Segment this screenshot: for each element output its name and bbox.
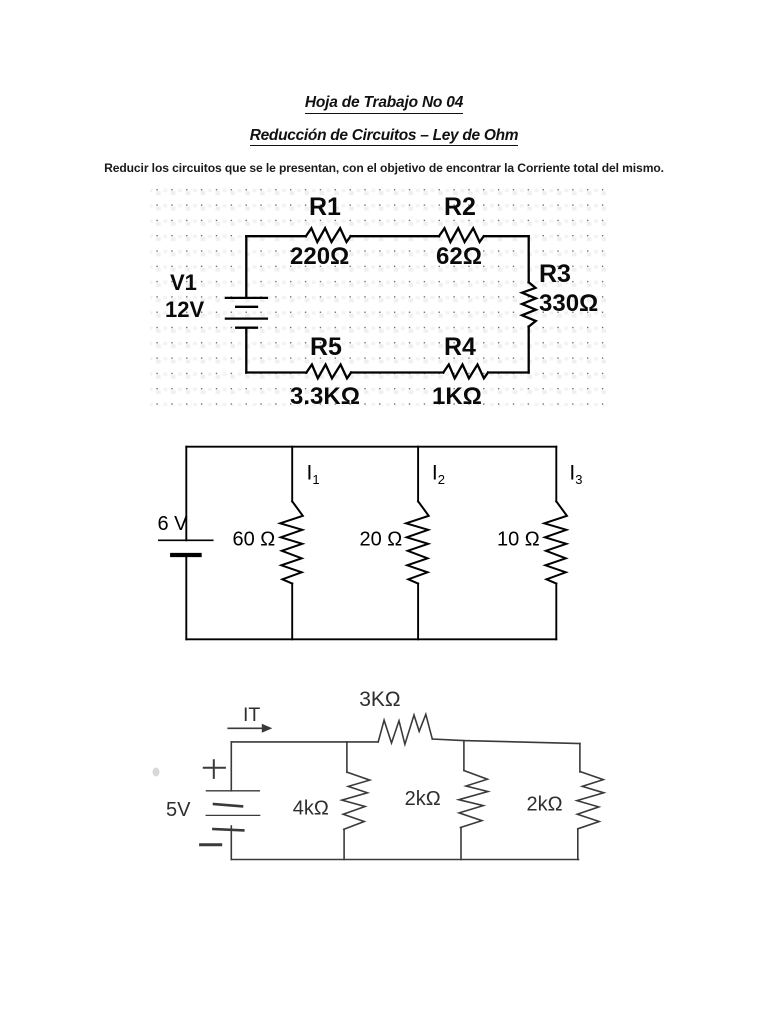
wire top [246, 235, 528, 237]
wire left [185, 447, 187, 640]
svg-text:R3: R3 [539, 260, 571, 288]
resistor R3 [522, 282, 536, 326]
resistor R4 [443, 365, 488, 379]
circuit 1 : series-parallel with V1 [145, 181, 655, 411]
svg-text:20 Ω: 20 Ω [360, 529, 403, 551]
resistor 10ohm [544, 501, 567, 583]
wire left [230, 742, 232, 791]
wire right vertical [578, 744, 580, 860]
svg-text:3KΩ: 3KΩ [359, 688, 400, 711]
resistor 4kohm [342, 772, 370, 829]
svg-text:V1: V1 [170, 270, 197, 295]
resistor 2kohm right [577, 772, 604, 829]
svg-text:2kΩ: 2kΩ [405, 788, 441, 810]
branch wire 2k mid [461, 741, 464, 860]
svg-text:3.3KΩ: 3.3KΩ [290, 383, 360, 410]
svg-text:R1: R1 [309, 193, 341, 221]
speck [153, 768, 160, 777]
branch wire 4k [344, 742, 347, 860]
resistor 2kohm mid [459, 771, 488, 828]
battery 5V [206, 791, 260, 831]
svg-text:1KΩ: 1KΩ [432, 383, 482, 410]
resistor 60ohm [280, 501, 303, 583]
wire bottom [231, 859, 578, 861]
svg-text:5V: 5V [166, 799, 191, 821]
svg-text:6 V: 6 V [158, 513, 189, 535]
resistor R5 [306, 365, 351, 379]
branch wire I2 [417, 447, 419, 640]
resistor R1 [306, 228, 351, 242]
subtitle [0, 127, 768, 146]
branch wire I1 [291, 447, 293, 640]
svg-text:I3: I3 [569, 462, 582, 488]
title [0, 94, 768, 114]
wire top right [432, 739, 580, 744]
svg-text:R5: R5 [310, 333, 342, 361]
svg-text:10 Ω: 10 Ω [497, 529, 540, 551]
wire left lower [230, 826, 232, 860]
svg-text:I1: I1 [307, 462, 320, 488]
svg-text:60 Ω: 60 Ω [233, 529, 276, 551]
wire left [245, 236, 247, 372]
plus sign [204, 760, 225, 778]
svg-text:2kΩ: 2kΩ [527, 794, 563, 816]
IT arrow [228, 724, 272, 733]
paragraph [0, 161, 768, 175]
svg-text:330Ω: 330Ω [539, 290, 598, 317]
minus sign [201, 843, 221, 846]
svg-text:R2: R2 [444, 193, 476, 221]
resistor R2 [439, 228, 484, 242]
svg-text:62Ω: 62Ω [436, 243, 482, 270]
svg-text:R4: R4 [444, 333, 476, 361]
circuit 3 : hand drawn with 5V [145, 680, 615, 875]
wire bottom [246, 371, 528, 373]
svg-text:220Ω: 220Ω [290, 243, 349, 270]
resistor 3Kohm [378, 714, 432, 744]
battery V1 [226, 298, 267, 328]
svg-text:I2: I2 [432, 462, 445, 488]
svg-text:4kΩ: 4kΩ [293, 798, 329, 820]
circuit 2 : parallel resistors with 6V [145, 430, 585, 645]
wire bottom [186, 638, 556, 640]
battery 6V [159, 540, 213, 555]
wire top left [231, 741, 378, 743]
resistor 20ohm [406, 501, 429, 583]
wire right [528, 236, 530, 372]
svg-text:12V: 12V [165, 297, 204, 322]
svg-text:IT: IT [243, 704, 260, 726]
dotted grid background [150, 183, 606, 406]
wire right [555, 447, 557, 640]
wire top [186, 446, 556, 448]
